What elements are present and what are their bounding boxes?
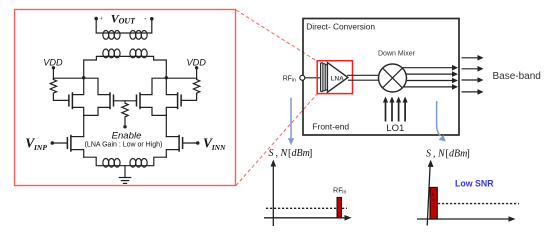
wire: VDD-R to right drain node <box>166 77 196 79</box>
label RF_in <box>283 75 296 83</box>
svg-text:in: in <box>342 190 346 196</box>
svg-text:Direct- Conversion: Direct- Conversion <box>306 21 375 31</box>
svg-text:RF: RF <box>283 75 292 82</box>
node V_INP dot <box>51 141 55 145</box>
axis arrowheads <box>271 160 277 167</box>
transistor M5 (gain switch left) <box>110 93 114 109</box>
label V_OUT <box>99 11 147 25</box>
left RF bar <box>337 197 342 217</box>
svg-text:VDD: VDD <box>43 58 63 68</box>
svg-text:Low SNR: Low SNR <box>455 178 494 188</box>
node Vout+ dot <box>94 17 98 21</box>
node RF input port <box>300 75 305 80</box>
label V_INN <box>203 136 226 152</box>
svg-text:dBm: dBm <box>449 149 467 160</box>
svg-text:Base-band: Base-band <box>493 71 541 82</box>
transistor M6 (gain switch right) <box>137 93 141 109</box>
wire LNA to mixer (differential) <box>347 74 381 76</box>
svg-text:LO1: LO1 <box>386 123 404 134</box>
resistor R3 (enable) <box>122 101 128 126</box>
svg-text:S: S <box>426 149 431 160</box>
wire: primary right end to right drain node <box>149 56 166 77</box>
wire VDD-R down <box>196 68 198 80</box>
label RF_in (left spectrum) <box>333 185 346 195</box>
svg-text:Enable: Enable <box>112 130 142 141</box>
svg-text:S: S <box>269 148 274 159</box>
wire R1 to M3 gate <box>53 95 69 100</box>
svg-text:,: , <box>276 148 279 159</box>
right noise floor dashed <box>438 203 519 205</box>
wire: primary left end to left drain node <box>84 56 101 77</box>
inductor Ls2 (right degeneration) <box>149 157 166 166</box>
noise rise tick marks <box>432 194 435 201</box>
svg-text:dBm: dBm <box>292 148 310 159</box>
right spectrum axes <box>417 164 510 226</box>
callout dashed line top <box>236 10 318 62</box>
callout dashed line bottom <box>236 94 318 186</box>
resistor R2 (right bias) <box>193 80 199 96</box>
wire VDD-L down <box>52 68 54 80</box>
blue callout arrow left <box>288 98 294 146</box>
svg-text:,: , <box>433 149 436 160</box>
transformer secondary winding (V_OUT) <box>96 19 152 33</box>
wire V_INN to M2 gate <box>183 142 198 144</box>
output arrows to base-band <box>462 58 479 92</box>
transistor M2 (right input) <box>179 136 183 152</box>
transistor M4 (right cascode) <box>178 93 182 109</box>
svg-text:]: ] <box>309 148 312 159</box>
LO1 arrows <box>386 100 406 122</box>
svg-text:Front-end: Front-end <box>312 121 349 131</box>
left noise floor dashed <box>266 207 347 209</box>
svg-text:in: in <box>292 77 296 83</box>
svg-text:+: + <box>99 15 103 22</box>
wire R2 to M4 gate <box>181 95 197 100</box>
wire: VDD-L to left drain node <box>53 77 83 79</box>
mixer U2 <box>379 64 407 92</box>
node VDD-R dot <box>195 66 198 69</box>
svg-text:INP: INP <box>33 143 47 152</box>
svg-text:(LNA Gain : Low or High): (LNA Gain : Low or High) <box>85 141 163 148</box>
wire V_INP to M1 gate <box>52 142 67 144</box>
label V_INP <box>25 136 47 152</box>
svg-text:VDD: VDD <box>187 58 207 68</box>
wires mixer to IF arrows <box>398 68 453 87</box>
node enable dot <box>123 125 126 128</box>
right spectrum S,N label <box>426 149 470 160</box>
wire gate line M5-M6 <box>114 100 137 102</box>
left spectrum axes <box>264 164 346 226</box>
wire RF port to LNA <box>305 77 321 79</box>
svg-text:Down Mixer: Down Mixer <box>378 51 416 58</box>
node right drain dot <box>165 76 168 79</box>
ground <box>119 177 130 179</box>
svg-text:INN: INN <box>211 143 226 152</box>
transistor M1 (left input) <box>67 136 71 152</box>
LNA U1 <box>321 63 348 93</box>
node left drain dot <box>82 76 85 79</box>
blue callout arrow right <box>437 101 446 142</box>
node Vout- dot <box>150 17 154 21</box>
node VDD-L dot <box>52 66 55 69</box>
front-end box <box>303 19 459 136</box>
resistor R1 (left bias) <box>50 80 56 96</box>
right RF bar <box>430 187 437 219</box>
arrowheads IF <box>452 65 458 90</box>
transformer primary (load) winding <box>101 55 150 57</box>
red callout box <box>15 10 236 186</box>
svg-text:LNA: LNA <box>331 76 345 83</box>
small red box around LNA <box>317 61 352 94</box>
svg-text:OUT: OUT <box>119 16 137 25</box>
inductor Ls1 (left degeneration) <box>84 157 101 166</box>
node V_INN dot <box>196 141 200 145</box>
left spectrum S,N label <box>269 148 313 159</box>
svg-text:]: ] <box>467 149 470 160</box>
transistor M3 (left cascode) <box>69 93 73 109</box>
wire to ground <box>124 166 126 178</box>
